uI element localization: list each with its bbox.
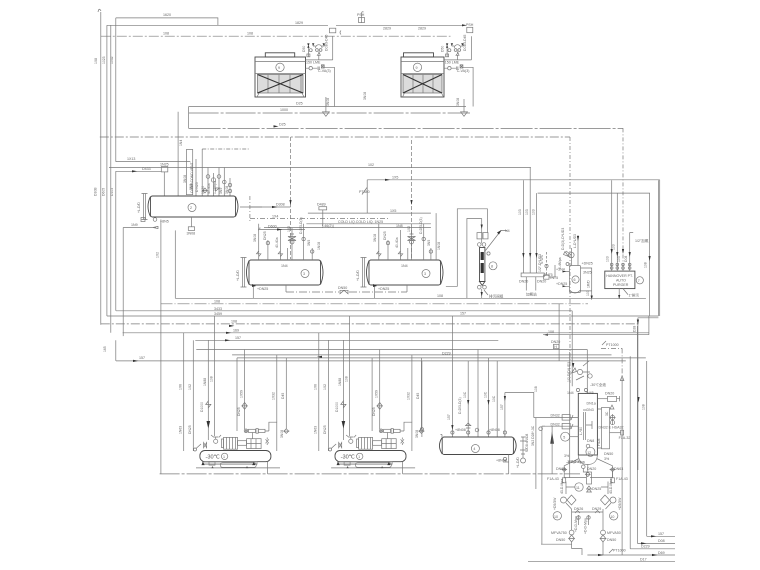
svg-text:+L-D/D: +L-D/D bbox=[516, 457, 520, 468]
svg-text:D N25: D N25 bbox=[195, 182, 199, 192]
svg-text:DN50: DN50 bbox=[604, 452, 613, 456]
svg-text:L-*80: L-*80 bbox=[579, 427, 583, 435]
svg-text:D489: D489 bbox=[317, 203, 326, 207]
svg-text:3N5: 3N5 bbox=[427, 240, 431, 246]
svg-text:+DN25: +DN25 bbox=[378, 287, 389, 291]
svg-text:F1A-32: F1A-32 bbox=[619, 436, 631, 440]
svg-text:1R/D: 1R/D bbox=[587, 280, 591, 288]
svg-text:150 LME: 150 LME bbox=[306, 61, 321, 65]
svg-text:3N5: 3N5 bbox=[189, 184, 193, 190]
svg-text:3N08: 3N08 bbox=[225, 186, 229, 194]
svg-text:1N4: 1N4 bbox=[179, 140, 183, 146]
svg-text:157: 157 bbox=[658, 532, 664, 536]
svg-text:DN3: DN3 bbox=[587, 408, 594, 412]
svg-text:D30B: D30B bbox=[94, 187, 98, 196]
svg-text:D433: D433 bbox=[142, 167, 151, 171]
svg-text:1N4: 1N4 bbox=[281, 264, 288, 268]
svg-text:D229: D229 bbox=[641, 545, 650, 549]
svg-text:DN50: DN50 bbox=[556, 538, 565, 542]
svg-text:1X5: 1X5 bbox=[392, 176, 398, 180]
svg-text:11: 11 bbox=[576, 486, 580, 490]
svg-text:DN20: DN20 bbox=[519, 280, 528, 284]
svg-text:3N08: 3N08 bbox=[253, 234, 257, 242]
svg-text:108: 108 bbox=[437, 294, 443, 298]
svg-text:10: 10 bbox=[610, 515, 614, 519]
svg-text:1620: 1620 bbox=[163, 13, 171, 17]
svg-text:3459: 3459 bbox=[214, 312, 222, 316]
svg-text:0-4Mpa: 0-4Mpa bbox=[558, 257, 562, 269]
svg-text:40-40a: 40-40a bbox=[275, 237, 279, 248]
svg-text:+DN25: +DN25 bbox=[556, 282, 567, 286]
svg-text:1N4: 1N4 bbox=[567, 391, 574, 395]
svg-text:108: 108 bbox=[534, 386, 538, 392]
svg-text:157: 157 bbox=[447, 414, 451, 420]
svg-text:3: 3 bbox=[424, 272, 426, 276]
svg-text:1X2: 1X2 bbox=[407, 226, 411, 232]
svg-text:D-D/3-D(3): D-D/3-D(3) bbox=[458, 397, 462, 414]
svg-text:-4.?-D-Mpa: -4.?-D-Mpa bbox=[567, 460, 585, 464]
svg-text:1N08: 1N08 bbox=[437, 242, 441, 250]
svg-text:1N9: 1N9 bbox=[131, 223, 138, 227]
svg-text:COLD LIQ.COLD LIQ. 1N25: COLD LIQ.COLD LIQ. 1N25 bbox=[338, 220, 383, 224]
svg-text:+L-D/D: +L-D/D bbox=[356, 270, 360, 281]
svg-text:+D-D-Mpa: +D-D-Mpa bbox=[584, 518, 588, 534]
svg-text:D605: D605 bbox=[102, 188, 106, 196]
svg-text:PT1000: PT1000 bbox=[606, 343, 619, 347]
svg-text:3C: 3C bbox=[605, 411, 609, 416]
svg-text:1N4: 1N4 bbox=[401, 264, 408, 268]
svg-text:PURGER: PURGER bbox=[613, 283, 629, 287]
svg-text:+D5/3W: +D5/3W bbox=[553, 497, 557, 510]
svg-text:1N25: 1N25 bbox=[160, 163, 169, 167]
svg-text:157: 157 bbox=[500, 404, 504, 410]
svg-text:L-D*L/D3: L-D*L/D3 bbox=[573, 234, 577, 248]
svg-text:3N08: 3N08 bbox=[373, 234, 377, 242]
svg-text:157: 157 bbox=[235, 336, 241, 340]
svg-text:12: 12 bbox=[587, 451, 591, 455]
svg-text:D28: D28 bbox=[633, 326, 637, 332]
svg-text:1X13: 1X13 bbox=[127, 157, 135, 161]
svg-text:F1A-43: F1A-43 bbox=[616, 477, 628, 481]
svg-text:1X4: 1X4 bbox=[272, 214, 278, 218]
svg-text:+DN25: +DN25 bbox=[257, 287, 268, 291]
svg-text:1023: 1023 bbox=[102, 56, 106, 64]
svg-text:43-D-Mpa: 43-D-Mpa bbox=[560, 479, 564, 494]
svg-text:C-VA(3): C-VA(3) bbox=[318, 69, 331, 73]
svg-text:+8N08: +8N08 bbox=[489, 428, 500, 432]
svg-text:1829: 1829 bbox=[295, 21, 303, 25]
svg-text:HANNOVER PT.: HANNOVER PT. bbox=[606, 274, 633, 278]
svg-text:6: 6 bbox=[574, 278, 576, 282]
svg-text:D25: D25 bbox=[279, 123, 286, 127]
svg-text:165: 165 bbox=[103, 346, 107, 352]
svg-text:10: 10 bbox=[554, 515, 558, 519]
svg-text:DN63: DN63 bbox=[556, 467, 565, 471]
svg-text:D-D/3-D(3): D-D/3-D(3) bbox=[419, 217, 423, 234]
svg-text:3N08: 3N08 bbox=[187, 232, 196, 236]
svg-text:1032: 1032 bbox=[110, 56, 114, 64]
svg-text:2829: 2829 bbox=[383, 27, 391, 31]
svg-text:108: 108 bbox=[642, 404, 646, 410]
svg-text:1N20: 1N20 bbox=[201, 186, 205, 194]
svg-text:1000: 1000 bbox=[280, 108, 288, 112]
svg-text:D03/3-D45: D03/3-D45 bbox=[325, 34, 329, 51]
svg-text:10C: 10C bbox=[492, 395, 496, 402]
svg-text:+D-D-Mpa: +D-D-Mpa bbox=[574, 516, 578, 532]
svg-text:D17: D17 bbox=[640, 558, 647, 562]
svg-text:DN1a: DN1a bbox=[587, 402, 596, 406]
svg-text:DN26: DN26 bbox=[574, 507, 583, 511]
svg-text:169: 169 bbox=[233, 329, 239, 333]
svg-text:DN63: DN63 bbox=[614, 467, 623, 471]
svg-text:N/D8 dN/D8: N/D8 dN/D8 bbox=[525, 434, 529, 452]
svg-text:DN29: DN29 bbox=[592, 507, 601, 511]
svg-text:157: 157 bbox=[139, 356, 145, 360]
svg-text:3%: 3% bbox=[564, 454, 570, 458]
svg-text:108: 108 bbox=[214, 300, 220, 304]
svg-text:43-D-Mpa: 43-D-Mpa bbox=[609, 479, 613, 494]
svg-text:1/2"加氨: 1/2"加氨 bbox=[635, 238, 649, 243]
svg-text:103: 103 bbox=[525, 209, 529, 215]
svg-text:N WS: N WS bbox=[540, 254, 544, 264]
svg-text:9: 9 bbox=[416, 66, 418, 70]
svg-text:1N8: 1N8 bbox=[396, 224, 403, 228]
svg-text:108: 108 bbox=[247, 32, 253, 36]
svg-text:3N2 D28*-3C: 3N2 D28*-3C bbox=[531, 425, 535, 446]
svg-text:3N5: 3N5 bbox=[219, 188, 223, 194]
svg-text:1"排污: 1"排污 bbox=[629, 293, 640, 298]
svg-text:4: 4 bbox=[473, 447, 475, 451]
svg-text:3N08: 3N08 bbox=[363, 92, 367, 100]
svg-text:10C: 10C bbox=[484, 391, 488, 398]
svg-text:3%: 3% bbox=[604, 457, 610, 461]
svg-text:3433: 3433 bbox=[214, 307, 222, 311]
svg-text:-30℃全液: -30℃全液 bbox=[590, 382, 606, 387]
svg-text:D-D(3)-D*L/D3: D-D(3)-D*L/D3 bbox=[561, 228, 565, 250]
svg-text:D-D/3-D(3): D-D/3-D(3) bbox=[299, 217, 303, 234]
svg-text:108: 108 bbox=[644, 262, 648, 268]
svg-text:102: 102 bbox=[368, 163, 374, 167]
svg-text:D50: D50 bbox=[302, 46, 306, 52]
svg-text:+L-D/D: +L-D/D bbox=[137, 202, 141, 213]
svg-text:1X2: 1X2 bbox=[156, 252, 160, 258]
svg-text:103: 103 bbox=[617, 256, 621, 262]
svg-text:D308: D308 bbox=[276, 203, 285, 207]
svg-text:N4: N4 bbox=[505, 229, 510, 233]
svg-text:AUTO: AUTO bbox=[616, 279, 626, 283]
svg-text:DN20: DN20 bbox=[605, 392, 614, 396]
svg-text:103: 103 bbox=[586, 290, 590, 296]
svg-text:103: 103 bbox=[606, 256, 610, 262]
svg-text:DN20: DN20 bbox=[587, 467, 596, 471]
svg-text:D229: D229 bbox=[442, 352, 451, 356]
svg-text:加氨站: 加氨站 bbox=[526, 292, 537, 297]
svg-text:DN20: DN20 bbox=[537, 280, 546, 284]
svg-text:103: 103 bbox=[612, 244, 616, 250]
svg-text:D08: D08 bbox=[658, 539, 665, 543]
svg-text:D103: D103 bbox=[110, 188, 114, 196]
svg-text:+DN25: +DN25 bbox=[582, 262, 593, 266]
svg-text:D69: D69 bbox=[658, 551, 665, 555]
svg-text:103: 103 bbox=[518, 209, 522, 215]
svg-text:D25: D25 bbox=[296, 102, 303, 106]
svg-text:108: 108 bbox=[163, 32, 169, 36]
svg-text:1N08: 1N08 bbox=[317, 242, 321, 250]
svg-text:+L-D/D: +L-D/D bbox=[236, 270, 240, 281]
svg-text:DN25: DN25 bbox=[383, 231, 387, 240]
svg-text:PT1000: PT1000 bbox=[613, 549, 626, 553]
svg-text:+8N08: +8N08 bbox=[496, 459, 507, 463]
svg-text:DN32: DN32 bbox=[551, 414, 560, 418]
svg-text:7: 7 bbox=[638, 279, 640, 283]
svg-text:F/D8: F/D8 bbox=[597, 439, 601, 446]
svg-text:+8N5: +8N5 bbox=[160, 220, 169, 224]
svg-text:H: H bbox=[554, 345, 557, 349]
svg-text:PT380: PT380 bbox=[359, 190, 370, 194]
svg-text:D08: D08 bbox=[624, 256, 628, 262]
svg-text:D600: D600 bbox=[268, 225, 277, 229]
svg-text:DN32 E HSA32: DN32 E HSA32 bbox=[599, 426, 624, 430]
svg-text:DN25: DN25 bbox=[592, 487, 601, 491]
svg-text:7N75: 7N75 bbox=[550, 276, 559, 280]
svg-text:F1A-43: F1A-43 bbox=[547, 477, 559, 481]
svg-text:40-40a: 40-40a bbox=[395, 237, 399, 248]
svg-text:PSH: PSH bbox=[466, 23, 474, 27]
svg-text:DN8: DN8 bbox=[587, 439, 594, 443]
svg-text:157: 157 bbox=[460, 312, 466, 316]
svg-text:DN50: DN50 bbox=[607, 538, 616, 542]
svg-text:+8N08: +8N08 bbox=[455, 428, 466, 432]
svg-text:103: 103 bbox=[532, 209, 536, 215]
svg-text:1/2-D/D*L/D3: 1/2-D/D*L/D3 bbox=[567, 362, 571, 382]
svg-text:DN20: DN20 bbox=[551, 340, 560, 344]
svg-text:1.08Mpa: 1.08Mpa bbox=[213, 181, 217, 194]
svg-text:2: 2 bbox=[190, 206, 192, 210]
svg-text:3N08: 3N08 bbox=[456, 98, 460, 106]
svg-text:MFVA50: MFVA50 bbox=[607, 531, 621, 535]
svg-text:3N08: 3N08 bbox=[326, 98, 330, 106]
svg-text:5: 5 bbox=[563, 436, 565, 440]
svg-text:3N5: 3N5 bbox=[307, 240, 311, 246]
svg-text:DN25: DN25 bbox=[263, 231, 267, 240]
svg-text:1X2: 1X2 bbox=[287, 226, 291, 232]
svg-text:1X8: 1X8 bbox=[94, 58, 98, 64]
svg-text:3N25: 3N25 bbox=[583, 271, 592, 275]
svg-text:PSH: PSH bbox=[357, 13, 365, 17]
svg-text:40-40a: 40-40a bbox=[207, 183, 211, 194]
svg-text:9: 9 bbox=[278, 66, 280, 70]
svg-text:3N08: 3N08 bbox=[183, 175, 187, 183]
svg-text:2829: 2829 bbox=[418, 27, 426, 31]
svg-text:排污阀组: 排污阀组 bbox=[489, 294, 504, 299]
svg-text:10C: 10C bbox=[463, 391, 467, 398]
svg-text:3: 3 bbox=[303, 272, 305, 276]
svg-text:1X5: 1X5 bbox=[390, 209, 396, 213]
svg-text:108: 108 bbox=[231, 320, 237, 324]
svg-text:108: 108 bbox=[548, 330, 554, 334]
svg-text:[-46(2)]: [-46(2)] bbox=[322, 224, 334, 228]
svg-text:+D5/3W: +D5/3W bbox=[618, 497, 622, 510]
svg-text:MFVA750: MFVA750 bbox=[551, 531, 567, 535]
svg-text:DN50: DN50 bbox=[338, 286, 347, 290]
svg-text:DN32: DN32 bbox=[551, 423, 560, 427]
svg-text:8: 8 bbox=[491, 265, 493, 269]
